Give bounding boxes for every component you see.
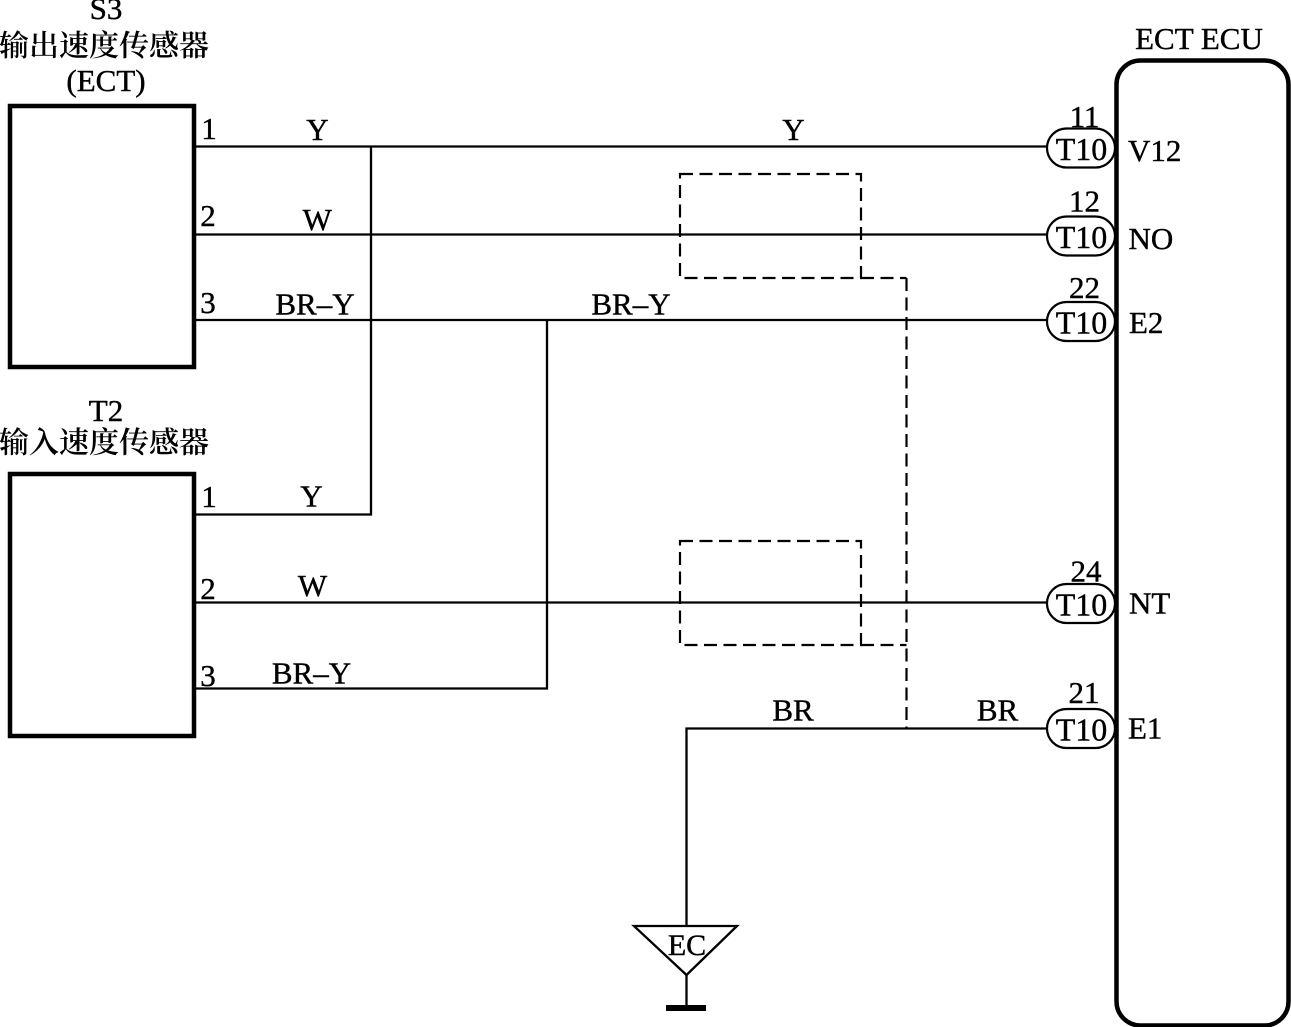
svg-text:3: 3: [200, 658, 216, 693]
svg-text:ECT ECU: ECT ECU: [1135, 21, 1263, 56]
svg-text:T10: T10: [1056, 712, 1108, 748]
svg-text:W: W: [298, 568, 328, 603]
svg-text:BR: BR: [977, 693, 1019, 728]
svg-text:22: 22: [1069, 270, 1100, 305]
svg-text:T10: T10: [1056, 587, 1108, 623]
svg-text:T10: T10: [1056, 131, 1108, 167]
svg-text:T2: T2: [89, 393, 123, 428]
svg-text:V12: V12: [1128, 133, 1181, 168]
svg-text:(ECT): (ECT): [66, 63, 145, 98]
svg-text:24: 24: [1071, 554, 1103, 589]
svg-text:E2: E2: [1129, 305, 1163, 340]
svg-text:NO: NO: [1129, 221, 1174, 256]
svg-text:NT: NT: [1129, 586, 1170, 621]
svg-text:2: 2: [200, 571, 216, 606]
svg-text:BR–Y: BR–Y: [275, 287, 354, 322]
svg-text:Y: Y: [300, 479, 322, 514]
svg-text:21: 21: [1069, 675, 1100, 710]
svg-text:EC: EC: [668, 929, 706, 962]
svg-text:T10: T10: [1056, 305, 1108, 341]
svg-text:BR–Y: BR–Y: [272, 656, 351, 691]
svg-text:2: 2: [200, 198, 216, 233]
svg-text:S3: S3: [90, 0, 123, 26]
svg-text:11: 11: [1070, 99, 1100, 134]
svg-text:T10: T10: [1056, 219, 1108, 255]
svg-text:Y: Y: [782, 112, 804, 147]
svg-text:Y: Y: [306, 112, 328, 147]
svg-text:BR: BR: [772, 693, 814, 728]
svg-text:W: W: [303, 202, 333, 237]
svg-text:12: 12: [1069, 184, 1100, 219]
svg-text:3: 3: [200, 285, 216, 320]
svg-text:BR–Y: BR–Y: [591, 287, 670, 322]
svg-text:E1: E1: [1128, 711, 1162, 746]
svg-text:1: 1: [201, 479, 217, 514]
svg-text:1: 1: [201, 111, 217, 146]
